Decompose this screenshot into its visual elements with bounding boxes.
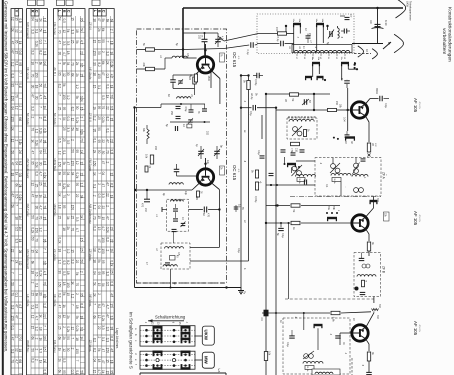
switch UKW row a bbox=[140, 326, 195, 332]
svg-text:1k: 1k bbox=[71, 281, 75, 285]
IF2 coil B circles2 bbox=[354, 188, 364, 193]
svg-text:1k: 1k bbox=[101, 370, 105, 374]
svg-text:15: 15 bbox=[30, 249, 34, 253]
svg-text:0,3: 0,3 bbox=[57, 293, 61, 298]
svg-text:70: 70 bbox=[57, 30, 61, 34]
svg-text:2: 2 bbox=[34, 359, 38, 361]
node T2 base bbox=[204, 163, 206, 165]
label box UKW bbox=[202, 326, 214, 345]
capacitor 470 bbox=[141, 190, 151, 213]
svg-text:95: 95 bbox=[75, 149, 79, 153]
switch row letters 2 bbox=[134, 353, 138, 365]
svg-text:0,5: 0,5 bbox=[62, 358, 66, 363]
svg-text:22: 22 bbox=[97, 326, 101, 330]
svg-text:2k: 2k bbox=[66, 227, 70, 231]
wire bottom bus bbox=[135, 286, 242, 288]
svg-text:6k: 6k bbox=[110, 19, 114, 23]
svg-text:a0,2μ: a0,2μ bbox=[250, 93, 254, 100]
label 0.2u bbox=[250, 93, 259, 100]
svg-text:0,04μ: 0,04μ bbox=[254, 79, 258, 86]
svg-text:0,1: 0,1 bbox=[18, 83, 22, 88]
contact IF3 bbox=[314, 324, 323, 328]
svg-text:95: 95 bbox=[43, 239, 47, 243]
coil mixer bbox=[177, 94, 194, 99]
svg-text:2k: 2k bbox=[110, 249, 114, 253]
svg-text:95: 95 bbox=[80, 293, 84, 297]
svg-text:↳A: ↳A bbox=[217, 368, 221, 372]
IF2 coil B winding bbox=[352, 175, 368, 177]
svg-text:FM-Tuner: FM-Tuner bbox=[53, 22, 57, 35]
resistor T1 emitter bbox=[188, 76, 196, 84]
svg-text:04: 04 bbox=[101, 283, 105, 287]
capacitor T1 e bbox=[170, 75, 176, 88]
trimmer osc b bbox=[214, 145, 223, 159]
svg-text:18: 18 bbox=[110, 41, 114, 45]
svg-text:95: 95 bbox=[43, 140, 47, 144]
svg-text:150: 150 bbox=[93, 161, 97, 167]
svg-text:0,3: 0,3 bbox=[110, 281, 114, 286]
svg-text:0,3: 0,3 bbox=[106, 237, 110, 242]
svg-text:2k: 2k bbox=[18, 184, 22, 188]
labels if2 box bbox=[319, 162, 366, 188]
svg-text:31,5k: 31,5k bbox=[333, 178, 335, 184]
svg-text:1k: 1k bbox=[110, 85, 114, 89]
labels det interior bbox=[296, 33, 317, 49]
IF2 coil B circles bbox=[353, 163, 360, 175]
svg-text:18: 18 bbox=[75, 29, 79, 33]
coil zfb bbox=[357, 275, 376, 277]
svg-text:95: 95 bbox=[101, 271, 105, 275]
resistor zigzag ukw bbox=[147, 125, 149, 144]
svg-text:150: 150 bbox=[75, 349, 79, 355]
svg-text:12: 12 bbox=[80, 161, 84, 165]
svg-text:12: 12 bbox=[71, 327, 75, 331]
svg-text:2k: 2k bbox=[93, 293, 97, 297]
svg-text:0,1: 0,1 bbox=[14, 61, 18, 66]
svg-text:4,7: 4,7 bbox=[38, 95, 42, 100]
svg-text:··: ·· bbox=[344, 186, 347, 188]
capacitor det right bbox=[341, 29, 350, 34]
svg-text:1,2: 1,2 bbox=[80, 182, 84, 187]
wire trimmer to edge bbox=[218, 36, 224, 41]
svg-text:202: 202 bbox=[154, 146, 157, 151]
svg-text:31,5k: 31,5k bbox=[306, 366, 308, 372]
svg-text:0,1: 0,1 bbox=[18, 173, 22, 178]
svg-text:2: 2 bbox=[93, 195, 97, 197]
svg-text:50: 50 bbox=[97, 51, 101, 55]
label 30 bbox=[284, 99, 288, 102]
svg-text:3,3: 3,3 bbox=[110, 315, 114, 320]
labels t2 cluster bbox=[162, 191, 198, 201]
svg-text:2: 2 bbox=[97, 337, 101, 339]
svg-text:1k: 1k bbox=[18, 215, 22, 219]
svg-text:1k: 1k bbox=[38, 338, 42, 342]
capacitor T3b bbox=[345, 131, 350, 137]
svg-text:30: 30 bbox=[34, 96, 38, 100]
svg-text:1k: 1k bbox=[18, 41, 22, 45]
svg-text:2: 2 bbox=[106, 249, 110, 251]
svg-text:0,3: 0,3 bbox=[43, 51, 47, 56]
svg-text:AF 105: AF 105 bbox=[413, 98, 418, 113]
svg-text:50: 50 bbox=[30, 237, 34, 241]
wire T3 base bbox=[276, 109, 351, 111]
svg-text:2: 2 bbox=[71, 139, 75, 141]
svg-text:04: 04 bbox=[66, 172, 70, 176]
svg-text:3,3: 3,3 bbox=[66, 41, 70, 46]
wire IF2 in verticals bbox=[285, 157, 292, 173]
wire to T5 collector bbox=[366, 312, 374, 328]
antenna stub bbox=[372, 49, 377, 59]
resistor 5k y313 bbox=[331, 311, 340, 322]
svg-text:5k: 5k bbox=[10, 204, 14, 208]
measurement table bbox=[10, 9, 114, 375]
circles zfb bbox=[362, 264, 370, 268]
wire v1 int bbox=[175, 204, 177, 218]
svg-text:50: 50 bbox=[62, 171, 66, 175]
svg-text:C: C bbox=[66, 10, 70, 13]
wire vario1 left stub bbox=[162, 207, 167, 212]
wire T2 collector diag bbox=[211, 183, 219, 190]
svg-text:18: 18 bbox=[62, 227, 66, 231]
svg-text:22: 22 bbox=[80, 51, 84, 55]
capacitor y174 bbox=[269, 173, 274, 186]
svg-text:2: 2 bbox=[97, 293, 101, 295]
svg-text:UKW: UKW bbox=[204, 330, 209, 341]
wire feed lower bbox=[224, 45, 257, 49]
svg-text:4,7: 4,7 bbox=[34, 316, 38, 321]
IF2 coil A winding bbox=[331, 174, 351, 176]
svg-text:25: 25 bbox=[71, 40, 75, 44]
wire T5 e down bbox=[368, 361, 370, 372]
wire T3 emitter up bbox=[365, 99, 378, 105]
svg-text:1500: 1500 bbox=[207, 76, 210, 82]
svg-text:150: 150 bbox=[34, 72, 38, 78]
trimmer osc a bbox=[195, 144, 204, 159]
svg-text:04: 04 bbox=[62, 117, 66, 121]
svg-text:25: 25 bbox=[30, 293, 34, 297]
svg-text:2: 2 bbox=[62, 326, 66, 328]
svg-text:30: 30 bbox=[66, 348, 70, 352]
svg-text:15: 15 bbox=[30, 326, 34, 330]
svg-text:0,1: 0,1 bbox=[93, 184, 97, 189]
svg-text:50: 50 bbox=[10, 282, 14, 286]
wire rail x241 bbox=[240, 76, 242, 288]
svg-text:150: 150 bbox=[275, 27, 279, 32]
svg-text:2: 2 bbox=[110, 29, 114, 31]
svg-text:70: 70 bbox=[93, 216, 97, 220]
svg-text:15: 15 bbox=[14, 50, 18, 54]
antenna external jack bbox=[394, 34, 403, 52]
svg-text:0,5: 0,5 bbox=[66, 140, 70, 145]
svg-text:7: 7 bbox=[75, 360, 79, 362]
svg-text:1k: 1k bbox=[38, 195, 42, 199]
svg-text:0,5: 0,5 bbox=[14, 227, 18, 232]
svg-text:0,2k: 0,2k bbox=[34, 140, 38, 146]
svg-text:1k: 1k bbox=[14, 172, 18, 176]
svg-text:22: 22 bbox=[110, 139, 114, 143]
svg-text:3,3: 3,3 bbox=[66, 127, 70, 132]
svg-text:95: 95 bbox=[14, 40, 18, 44]
IF3 shield box bbox=[283, 318, 350, 374]
resistor zigzag 302 bbox=[372, 304, 381, 311]
svg-text:150: 150 bbox=[101, 237, 105, 243]
svg-text:47: 47 bbox=[14, 304, 18, 308]
label 22k box bbox=[384, 212, 390, 221]
svg-text:95: 95 bbox=[101, 260, 105, 264]
svg-text:0,1: 0,1 bbox=[10, 325, 14, 330]
svg-text:Teleskopantenne: Teleskopantenne bbox=[409, 1, 413, 21]
wire y70 link bbox=[240, 74, 250, 76]
svg-text:18: 18 bbox=[110, 360, 114, 364]
svg-text:0,2k: 0,2k bbox=[101, 117, 105, 123]
svg-text:6k: 6k bbox=[93, 316, 97, 320]
labels t5 area bbox=[344, 315, 378, 367]
label T5 AF105 bbox=[413, 321, 420, 336]
svg-text:0,3: 0,3 bbox=[43, 129, 47, 134]
svg-text:UKW Ber.: UKW Ber. bbox=[53, 204, 57, 217]
wire T1 emitter bottom bbox=[173, 84, 195, 95]
contact 34 bbox=[326, 206, 339, 221]
svg-text:HF-Stufe: HF-Stufe bbox=[89, 67, 93, 79]
svg-text:04: 04 bbox=[71, 172, 75, 176]
wire T1 emitter diag bbox=[195, 71, 200, 77]
svg-text:1k: 1k bbox=[57, 193, 61, 197]
svg-text:95: 95 bbox=[97, 140, 101, 144]
svg-text:7: 7 bbox=[57, 118, 61, 120]
transistor T1 OC615 bbox=[197, 57, 213, 73]
svg-text:30: 30 bbox=[38, 162, 42, 166]
svg-text:Lage Abstimm.: Lage Abstimm. bbox=[115, 328, 119, 349]
svg-text:12: 12 bbox=[62, 29, 66, 33]
capacitor T3 emitter bbox=[375, 88, 389, 108]
svg-text:04: 04 bbox=[14, 162, 18, 166]
resistor 7.5k bbox=[290, 142, 300, 153]
wire T1 emitter bbox=[207, 71, 211, 89]
svg-text:47: 47 bbox=[110, 293, 114, 297]
svg-text:470: 470 bbox=[141, 203, 144, 208]
feedthrough zfb bbox=[355, 287, 359, 291]
svg-text:UKW Ber.: UKW Ber. bbox=[26, 340, 30, 353]
svg-text:12: 12 bbox=[57, 151, 61, 155]
svg-text:2: 2 bbox=[106, 205, 110, 207]
svg-text:KW Eingang: KW Eingang bbox=[26, 22, 30, 39]
svg-text:47: 47 bbox=[106, 182, 110, 186]
svg-text:1,2: 1,2 bbox=[66, 95, 70, 100]
svg-text:3,3: 3,3 bbox=[110, 149, 114, 154]
svg-text:15: 15 bbox=[14, 17, 18, 21]
resistor 5k b bbox=[255, 181, 261, 190]
svg-text:7: 7 bbox=[18, 72, 22, 74]
svg-text:25: 25 bbox=[57, 216, 61, 220]
pin labels det bbox=[295, 54, 345, 60]
svg-text:18: 18 bbox=[93, 248, 97, 252]
svg-text:7: 7 bbox=[10, 272, 14, 274]
svg-text:47: 47 bbox=[57, 40, 61, 44]
svg-text:NF-Stufe: NF-Stufe bbox=[26, 113, 30, 125]
svg-text:150: 150 bbox=[106, 348, 110, 354]
svg-text:04: 04 bbox=[30, 17, 34, 21]
svg-text:30: 30 bbox=[110, 327, 114, 331]
capacitor C7 bbox=[340, 14, 353, 20]
caption Konstruktionsaenderungen bbox=[441, 7, 453, 62]
wire zfb out bbox=[373, 297, 375, 304]
svg-text:5k: 5k bbox=[75, 96, 79, 100]
svg-text:15: 15 bbox=[93, 370, 97, 374]
svg-text:5k: 5k bbox=[80, 28, 84, 32]
svg-text:47: 47 bbox=[66, 162, 70, 166]
circles IF3 bbox=[303, 351, 314, 359]
wire IF2 link bbox=[296, 160, 315, 162]
svg-text:15: 15 bbox=[93, 40, 97, 44]
svg-text:5k: 5k bbox=[62, 162, 66, 166]
IF2 coil A circles bbox=[330, 163, 340, 173]
svg-text:12: 12 bbox=[75, 161, 79, 165]
svg-text:2: 2 bbox=[80, 116, 84, 118]
svg-text:12: 12 bbox=[43, 30, 47, 34]
svg-text:04: 04 bbox=[101, 172, 105, 176]
svg-text:5k: 5k bbox=[75, 316, 79, 320]
svg-text:0,04: 0,04 bbox=[343, 117, 346, 122]
label box MW bbox=[202, 352, 214, 368]
resistor 1k T1 bbox=[189, 74, 198, 82]
svg-text:70: 70 bbox=[34, 238, 38, 242]
svg-text:R: R bbox=[97, 10, 101, 13]
ZF B shield box bbox=[354, 253, 381, 297]
svg-text:·1·3·: ·1·3· bbox=[237, 55, 239, 60]
svg-text:0,2k: 0,2k bbox=[38, 270, 42, 276]
svg-text:2: 2 bbox=[30, 117, 34, 119]
svg-text:202: 202 bbox=[206, 131, 209, 136]
IF2 input resistor bbox=[297, 178, 305, 185]
svg-text:47: 47 bbox=[10, 41, 14, 45]
wire contact 14 drop bbox=[317, 27, 324, 52]
svg-text:6k: 6k bbox=[30, 337, 34, 341]
feedthrough Tb bbox=[234, 204, 244, 212]
capacitor 0.1u rail bbox=[249, 105, 256, 117]
svg-text:70: 70 bbox=[34, 216, 38, 220]
svg-text:0,5: 0,5 bbox=[106, 282, 110, 287]
wire y190 bbox=[134, 189, 192, 191]
wire feed upper bbox=[224, 34, 257, 41]
svg-text:0,04μ: 0,04μ bbox=[254, 196, 258, 203]
capacitor m3 bbox=[202, 104, 207, 111]
wire T5 base bbox=[340, 333, 351, 345]
svg-text:5k: 5k bbox=[97, 348, 101, 352]
svg-text:0,3: 0,3 bbox=[101, 95, 105, 100]
svg-text:0,1μ: 0,1μ bbox=[246, 50, 249, 55]
svg-text:0,2k: 0,2k bbox=[75, 172, 79, 178]
svg-text:30: 30 bbox=[34, 206, 38, 210]
wire y107 bbox=[240, 107, 277, 109]
svg-text:10k: 10k bbox=[268, 351, 272, 356]
svg-text:202: 202 bbox=[198, 35, 201, 40]
svg-text:3,3: 3,3 bbox=[30, 50, 34, 55]
variometer box 1 bbox=[167, 199, 189, 231]
svg-text:50: 50 bbox=[101, 39, 105, 43]
svg-text:0,2k: 0,2k bbox=[75, 117, 79, 123]
svg-text:0,1μ: 0,1μ bbox=[249, 111, 253, 117]
svg-text:50: 50 bbox=[80, 259, 84, 263]
wire UKW link bbox=[195, 335, 202, 337]
svg-text:2k: 2k bbox=[75, 73, 79, 77]
svg-text:150: 150 bbox=[66, 282, 70, 288]
svg-text:Gemessen mit Instrument 50kΩ/V: Gemessen mit Instrument 50kΩ/V im 6 Volt… bbox=[4, 1, 9, 352]
svg-text:15: 15 bbox=[97, 215, 101, 219]
svg-text:0,1: 0,1 bbox=[80, 327, 84, 332]
svg-text:0,2k: 0,2k bbox=[62, 183, 66, 189]
trimmer m bbox=[188, 118, 193, 124]
svg-text:0,5: 0,5 bbox=[80, 63, 84, 68]
svg-text:im Schaltplan gezeichnete S: im Schaltplan gezeichnete S bbox=[129, 312, 134, 369]
svg-text:0,2k: 0,2k bbox=[43, 172, 47, 178]
svg-text:15: 15 bbox=[66, 293, 70, 297]
svg-text:15: 15 bbox=[43, 347, 47, 351]
svg-text:C: C bbox=[101, 10, 105, 13]
svg-text:·0,5·0,5·: ·0,5·0,5· bbox=[418, 101, 420, 110]
svg-text:50: 50 bbox=[10, 150, 14, 154]
svg-text:22: 22 bbox=[80, 173, 84, 177]
svg-text:15: 15 bbox=[80, 107, 84, 111]
svg-text:25: 25 bbox=[80, 74, 84, 78]
svg-text:250: 250 bbox=[170, 111, 173, 116]
svg-text:0,1μ: 0,1μ bbox=[276, 37, 280, 43]
svg-text:0,5μ: 0,5μ bbox=[184, 107, 187, 112]
svg-text:1,2: 1,2 bbox=[38, 227, 42, 232]
labels ukw top bbox=[159, 43, 189, 58]
svg-text:2: 2 bbox=[80, 271, 84, 273]
svg-text:47: 47 bbox=[97, 18, 101, 22]
wire x262 branch bbox=[262, 115, 287, 139]
svg-text:30: 30 bbox=[93, 62, 97, 66]
svg-text:15: 15 bbox=[97, 227, 101, 231]
svg-text:50: 50 bbox=[80, 370, 84, 374]
svg-text:18: 18 bbox=[57, 205, 61, 209]
svg-text:10k: 10k bbox=[145, 154, 149, 159]
wire rail x248 bbox=[248, 76, 250, 262]
svg-text:95: 95 bbox=[80, 18, 84, 22]
svg-text:04: 04 bbox=[38, 150, 42, 154]
svg-text:1,2: 1,2 bbox=[71, 294, 75, 299]
capacitor m2 bbox=[189, 104, 194, 112]
svg-text:8,2: 8,2 bbox=[93, 338, 97, 343]
svg-text:04: 04 bbox=[93, 271, 97, 275]
scan edge line bbox=[2, 0, 4, 375]
svg-text:12: 12 bbox=[62, 348, 66, 352]
trimmer v1 bbox=[181, 222, 186, 228]
svg-text:18: 18 bbox=[97, 359, 101, 363]
svg-text:47: 47 bbox=[101, 72, 105, 76]
svg-text:4,7: 4,7 bbox=[75, 228, 79, 233]
svg-text:7: 7 bbox=[43, 325, 47, 327]
svg-text:70: 70 bbox=[38, 216, 42, 220]
svg-text:1,2: 1,2 bbox=[18, 261, 22, 266]
coil core dashes bbox=[288, 116, 316, 118]
svg-text:150: 150 bbox=[335, 101, 338, 106]
svg-text:2: 2 bbox=[71, 348, 75, 350]
variometer circles bbox=[292, 126, 302, 136]
svg-text:12p: 12p bbox=[206, 160, 209, 165]
resistor T2 emitter bbox=[197, 191, 202, 197]
svg-text:5k: 5k bbox=[97, 259, 101, 263]
svg-text:22: 22 bbox=[101, 139, 105, 143]
wire y205 bbox=[266, 204, 340, 206]
svg-text:0,2k: 0,2k bbox=[38, 128, 42, 134]
svg-text:13p: 13p bbox=[184, 191, 187, 196]
wire rail x134 bbox=[134, 108, 136, 288]
wire y261 feed bbox=[190, 260, 249, 262]
svg-text:6k: 6k bbox=[18, 359, 22, 363]
svg-text:12: 12 bbox=[71, 118, 75, 122]
